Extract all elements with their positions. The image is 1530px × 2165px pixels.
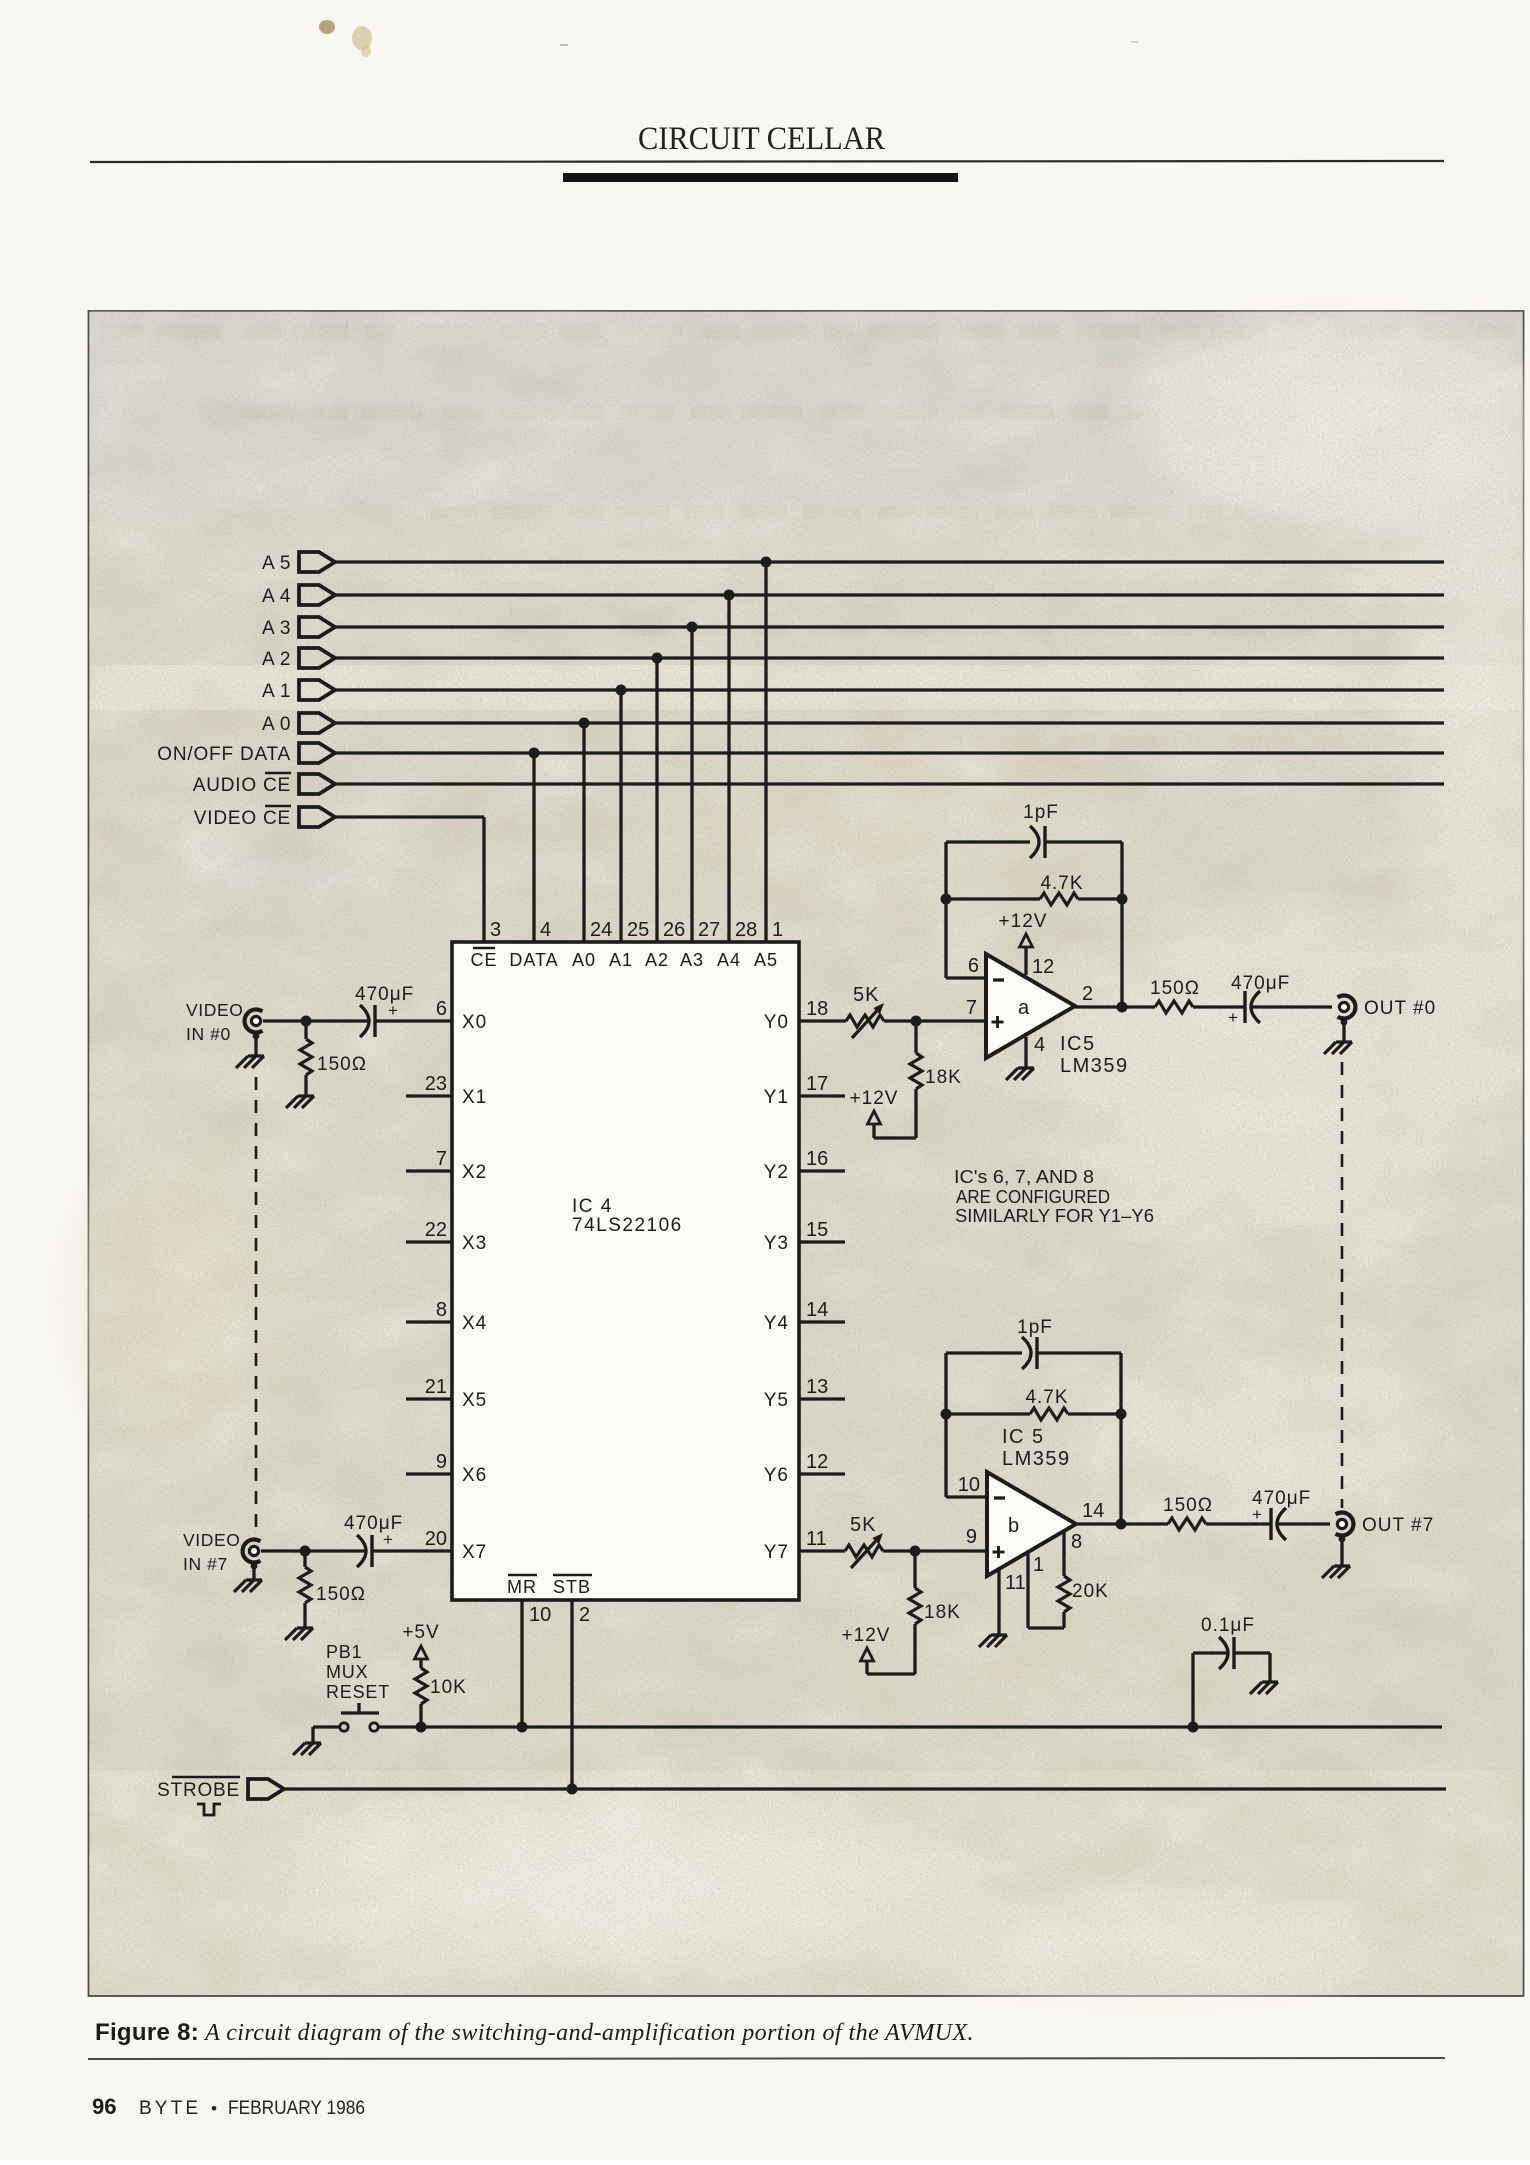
svg-text:DATA: DATA — [509, 950, 558, 970]
svg-text:+12V: +12V — [842, 1625, 891, 1646]
svg-text:18K: 18K — [925, 1067, 962, 1088]
svg-text:6: 6 — [436, 998, 447, 1020]
svg-text:13: 13 — [806, 1376, 828, 1398]
svg-text:X4: X4 — [462, 1313, 487, 1334]
svg-text:7: 7 — [436, 1148, 447, 1170]
op-amp U5a LM359 — [986, 954, 1075, 1058]
header thin rule — [90, 161, 1444, 162]
op-amp a pin 12 supply +12V — [999, 911, 1055, 978]
svg-text:IC's 6, 7, AND 8: IC's 6, 7, AND 8 — [954, 1166, 1094, 1187]
IC4 top pin names CE DATA A0-A5 — [470, 948, 778, 970]
IC4 bottom pin STB — [553, 1575, 592, 1788]
svg-text:25: 25 — [627, 919, 649, 941]
svg-text:A4: A4 — [717, 950, 741, 970]
svg-text:A1: A1 — [609, 950, 633, 970]
svg-text:RESET: RESET — [326, 1682, 390, 1702]
wire op-amp a output pin 2 — [1075, 983, 1128, 1013]
resistor R 10K pullup — [402, 1622, 466, 1733]
svg-text:4.7K: 4.7K — [1025, 1387, 1068, 1408]
dashed bus OUT 0-7 — [1341, 1062, 1344, 1508]
ground at OUT #0 — [1324, 1019, 1352, 1054]
connector J7 VIDEO IN #7 — [183, 1530, 260, 1574]
dashed bus VIDEO IN 0-7 — [255, 1077, 258, 1532]
op-amp b pin 9 label — [966, 1526, 977, 1548]
net A1 input flag and bus wire — [262, 680, 1444, 702]
ground at J7 shield — [234, 1563, 262, 1592]
svg-text:150Ω: 150Ω — [1163, 1495, 1213, 1516]
svg-text:MR: MR — [507, 1577, 537, 1597]
op-amp U5b LM359 — [987, 1472, 1076, 1576]
resistor R 18K channel a — [910, 1021, 962, 1138]
svg-text:X6: X6 — [462, 1465, 487, 1486]
IC4 bottom pin MR — [507, 1575, 551, 1727]
svg-text:IN #7: IN #7 — [183, 1554, 228, 1574]
net A2 input flag and bus wire — [262, 648, 1444, 670]
net A3 input flag and bus wire — [262, 617, 1444, 639]
wire VIDEO IN #7 to cap — [261, 1546, 366, 1557]
svg-text:X2: X2 — [462, 1162, 487, 1183]
svg-text:1: 1 — [1033, 1554, 1044, 1576]
svg-text:STROBE: STROBE — [157, 1780, 240, 1801]
wire A3 drop to IC4 pin 27 — [687, 622, 698, 943]
svg-text:14: 14 — [1082, 1500, 1104, 1522]
wire ONOFF drop to IC4 pin 4 — [529, 748, 540, 943]
svg-text:FEBRUARY 1986: FEBRUARY 1986 — [228, 2098, 365, 2119]
caption rule — [88, 2058, 1445, 2059]
svg-text:Y7: Y7 — [764, 1542, 789, 1563]
svg-text:OUT #0: OUT #0 — [1364, 998, 1436, 1019]
ground at J0 shield — [236, 1033, 264, 1068]
capacitor C 0.1uF — [1193, 1615, 1270, 1669]
svg-text:Y2: Y2 — [764, 1162, 789, 1183]
IC4 right pin stubs Y1-Y6 — [799, 1096, 845, 1474]
svg-text:5K: 5K — [853, 984, 879, 1006]
wire A1 drop to IC4 pin 25 — [616, 685, 627, 943]
svg-text:11: 11 — [806, 1528, 827, 1550]
svg-text:A2: A2 — [645, 950, 669, 970]
capacitor C 470uF output 7 — [1252, 1488, 1330, 1540]
header thick bar — [563, 173, 958, 182]
note ICs 6 7 8 configured similarly — [954, 1166, 1154, 1226]
figure frame and paper texture — [50, 280, 1530, 2020]
svg-text:Figure 8: A circuit diagram of: Figure 8: A circuit diagram of the switc… — [95, 2019, 974, 2046]
trimpot 5K channel a — [799, 984, 986, 1038]
op-amp b pin 10 label — [958, 1474, 980, 1496]
svg-text:VIDEO CE: VIDEO CE — [194, 808, 291, 829]
wire A0 drop to IC4 pin 24 — [579, 718, 590, 943]
svg-text:14: 14 — [806, 1299, 828, 1321]
svg-text:21: 21 — [425, 1376, 447, 1398]
resistor R 4.7K feedback b — [946, 1387, 1121, 1420]
resistor R 150ohm output 7 — [1121, 1495, 1271, 1530]
wire feedback node left b — [941, 1409, 988, 1498]
svg-text:IC5: IC5 — [1060, 1033, 1096, 1055]
svg-text:8: 8 — [436, 1299, 447, 1321]
net A0 input flag and bus wire — [262, 713, 1444, 735]
svg-text:VIDEO: VIDEO — [183, 1530, 240, 1550]
net A5 input flag and bus wire — [262, 552, 1444, 574]
op-amp a pin 4 ground — [1006, 1034, 1045, 1080]
capacitor C 1pF feedback b — [946, 1317, 1121, 1414]
ground under R 150ohm input 0 — [286, 1096, 314, 1108]
svg-text:ARE CONFIGURED: ARE CONFIGURED — [956, 1186, 1110, 1207]
IC4 left pin labels X0-X7 — [425, 998, 488, 1563]
svg-text:Y3: Y3 — [764, 1233, 789, 1254]
resistor R 20K pin 8 — [1028, 1531, 1109, 1628]
svg-text:LM359: LM359 — [1060, 1055, 1129, 1077]
svg-text:18K: 18K — [924, 1602, 961, 1623]
svg-text:b: b — [1008, 1515, 1019, 1537]
resistor R 150ohm output 0 — [1122, 978, 1245, 1013]
wire feedback node right a — [1117, 894, 1128, 1008]
svg-text:SIMILARLY FOR Y1–Y6: SIMILARLY FOR Y1–Y6 — [955, 1205, 1154, 1226]
ground under R 150ohm input 7 — [285, 1628, 313, 1640]
svg-text:8: 8 — [1071, 1531, 1082, 1553]
IC4 74LS22106 body — [452, 942, 799, 1600]
wire A2 drop to IC4 pin 26 — [652, 653, 663, 943]
net VIDEO CE input flag and wire to pin 3 — [194, 806, 484, 942]
svg-text:10: 10 — [958, 1474, 980, 1496]
svg-text:CIRCUIT CELLAR: CIRCUIT CELLAR — [638, 121, 885, 157]
svg-text:18: 18 — [806, 998, 828, 1020]
svg-text:7: 7 — [966, 997, 977, 1019]
svg-text:+12V: +12V — [850, 1088, 899, 1109]
svg-text:+5V: +5V — [402, 1622, 439, 1643]
svg-text:A 1: A 1 — [262, 681, 291, 702]
svg-text:5K: 5K — [850, 1514, 876, 1536]
svg-text:+: + — [1228, 1008, 1238, 1027]
svg-text:A 0: A 0 — [262, 714, 291, 735]
op-amp b label IC5 LM359 — [1002, 1426, 1071, 1470]
svg-text:1pF: 1pF — [1023, 802, 1059, 823]
resistor R 4.7K feedback a — [946, 873, 1122, 905]
op-amp a label IC5 LM359 — [1060, 1033, 1129, 1077]
STROBE pulse waveform symbol — [197, 1804, 221, 1815]
capacitor C 470uF input 7 — [344, 1513, 452, 1567]
svg-text:X1: X1 — [462, 1087, 487, 1108]
connector OUT #7 — [1336, 1513, 1435, 1537]
wire A4 drop to IC4 pin 28 — [724, 590, 735, 943]
svg-text:IC 4: IC 4 — [572, 1196, 613, 1217]
capacitor C 1pF feedback a — [946, 802, 1122, 899]
wire op-amp b output pin 14 — [1076, 1500, 1127, 1530]
svg-text:A 5: A 5 — [262, 553, 291, 574]
svg-text:+: + — [388, 1001, 398, 1020]
svg-text:IC 5: IC 5 — [1002, 1426, 1045, 1448]
svg-text:LM359: LM359 — [1002, 1448, 1071, 1470]
svg-text:A5: A5 — [754, 950, 778, 970]
pushbutton PB1 MUX RESET — [326, 1642, 390, 1731]
wire VIDEO IN #0 to cap — [263, 1016, 369, 1027]
net ON/OFF DATA input flag and bus wire — [157, 743, 1444, 765]
svg-text:12: 12 — [806, 1451, 828, 1473]
svg-text:2: 2 — [1082, 983, 1093, 1005]
net AUDIO CE input flag and bus wire — [193, 773, 1444, 796]
svg-text:470μF: 470μF — [344, 1513, 403, 1534]
connector J0 VIDEO IN #0 — [186, 1000, 262, 1044]
supply +12V at R18K a — [850, 1088, 916, 1138]
svg-text:10K: 10K — [430, 1677, 467, 1698]
svg-text:A 4: A 4 — [262, 586, 291, 607]
svg-text:Y1: Y1 — [764, 1087, 789, 1108]
connector OUT #0 — [1338, 996, 1437, 1020]
svg-text:28: 28 — [735, 919, 757, 941]
svg-text:IN #0: IN #0 — [186, 1024, 231, 1044]
wire A5 drop to IC4 pin 1 — [761, 557, 772, 943]
svg-text:+: + — [383, 1530, 393, 1549]
svg-text:CE: CE — [470, 950, 497, 970]
svg-text:1pF: 1pF — [1017, 1317, 1053, 1338]
svg-text:470μF: 470μF — [355, 984, 414, 1005]
svg-text:23: 23 — [425, 1073, 447, 1095]
op-amp a pin 7 label — [966, 997, 977, 1019]
svg-text:2: 2 — [579, 1604, 590, 1626]
svg-text:+12V: +12V — [999, 911, 1048, 932]
resistor R 18K channel b — [909, 1551, 961, 1674]
op-amp b pin 1 wire — [1028, 1553, 1044, 1628]
capacitor C 470uF output 0 — [1228, 973, 1332, 1027]
svg-text:11: 11 — [1005, 1572, 1026, 1594]
svg-text:20: 20 — [425, 1528, 447, 1550]
trimpot 5K channel b — [799, 1514, 987, 1568]
svg-text:12: 12 — [1032, 956, 1054, 978]
svg-text:16: 16 — [806, 1148, 828, 1170]
resistor R 150ohm input 0 — [300, 1021, 367, 1096]
wire 0.1uF left leg to MR net — [1188, 1653, 1199, 1733]
svg-text:26: 26 — [663, 919, 685, 941]
svg-text:4: 4 — [1034, 1034, 1045, 1056]
wire feedback node right b — [1116, 1409, 1127, 1525]
ground at 0.1uF — [1250, 1653, 1278, 1694]
svg-text:A3: A3 — [680, 950, 704, 970]
svg-text:Y5: Y5 — [764, 1390, 789, 1411]
svg-text:VIDEO: VIDEO — [186, 1000, 243, 1020]
op-amp b pin 11 ground — [979, 1569, 1026, 1647]
svg-text:20K: 20K — [1072, 1581, 1109, 1602]
svg-text:A 3: A 3 — [262, 618, 291, 639]
svg-text:24: 24 — [590, 919, 612, 941]
capacitor C 470uF input 0 — [355, 984, 452, 1037]
svg-text:STB: STB — [553, 1577, 591, 1597]
ground at PB1 — [293, 1743, 321, 1755]
svg-text:X7: X7 — [462, 1542, 487, 1563]
svg-text:0.1μF: 0.1μF — [1201, 1615, 1255, 1636]
svg-text:17: 17 — [806, 1073, 828, 1095]
IC4 top pin numbers — [490, 919, 783, 941]
net MR wire — [378, 1722, 1442, 1733]
svg-text:•: • — [211, 2099, 217, 2118]
svg-text:X5: X5 — [462, 1390, 487, 1411]
svg-text:6: 6 — [968, 955, 979, 977]
svg-text:ON/OFF DATA: ON/OFF DATA — [157, 744, 291, 765]
svg-text:96: 96 — [92, 2094, 116, 2119]
net STROBE input flag and wire — [157, 1777, 1446, 1801]
svg-text:4: 4 — [540, 919, 551, 941]
svg-text:470μF: 470μF — [1231, 973, 1290, 994]
svg-text:1: 1 — [772, 919, 783, 941]
svg-text:A 2: A 2 — [262, 649, 291, 670]
ground at OUT #7 — [1322, 1536, 1350, 1578]
svg-text:4.7K: 4.7K — [1040, 873, 1083, 894]
svg-text:3: 3 — [490, 919, 501, 941]
svg-text:+: + — [1252, 1505, 1262, 1524]
op-amp a pin 6 label — [968, 955, 979, 977]
svg-text:150Ω: 150Ω — [1150, 978, 1200, 999]
svg-text:10: 10 — [529, 1604, 551, 1626]
svg-text:9: 9 — [436, 1451, 447, 1473]
svg-text:AUDIO CE: AUDIO CE — [193, 775, 291, 796]
svg-text:Y0: Y0 — [764, 1012, 789, 1033]
svg-text:Y4: Y4 — [764, 1313, 789, 1334]
svg-text:74LS22106: 74LS22106 — [572, 1215, 683, 1236]
svg-text:X0: X0 — [462, 1012, 487, 1033]
IC4 left pin stubs X1-X6 — [406, 1096, 452, 1474]
svg-text:OUT #7: OUT #7 — [1362, 1515, 1434, 1536]
svg-text:9: 9 — [966, 1526, 977, 1548]
supply +12V at R18K b — [842, 1625, 915, 1674]
svg-text:A0: A0 — [572, 950, 596, 970]
svg-text:PB1: PB1 — [326, 1642, 362, 1662]
paper smudges — [319, 20, 335, 34]
svg-text:150Ω: 150Ω — [316, 1584, 366, 1605]
svg-text:X3: X3 — [462, 1233, 487, 1254]
net A4 input flag and bus wire — [262, 585, 1444, 607]
wire PB1 to ground — [313, 1727, 339, 1743]
svg-text:a: a — [1018, 997, 1030, 1019]
svg-text:27: 27 — [698, 919, 720, 941]
svg-text:Y6: Y6 — [764, 1465, 789, 1486]
svg-text:MUX: MUX — [326, 1662, 368, 1682]
IC4 right pin labels Y0-Y7 — [764, 998, 829, 1563]
svg-text:22: 22 — [425, 1219, 447, 1241]
wire feedback node left a — [941, 894, 987, 979]
svg-text:15: 15 — [806, 1219, 828, 1241]
svg-text:150Ω: 150Ω — [317, 1054, 367, 1075]
resistor R 150ohm input 7 — [299, 1551, 366, 1628]
